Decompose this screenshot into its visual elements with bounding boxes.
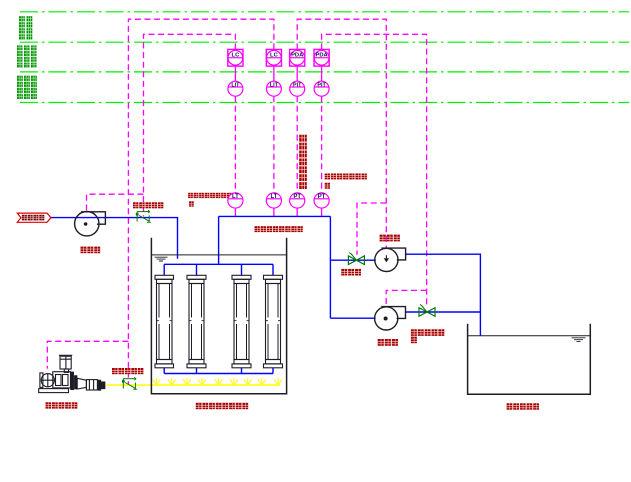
- pipe stub: module 1 bottom: [163, 368, 165, 374]
- signal wire W1: controller LC2 to aeration control valve: [128, 19, 274, 384]
- indicator PIT (circle instrument 3): [290, 81, 305, 96]
- transmitter LT (field instrument 1): [228, 193, 243, 208]
- signal wire W3 branch to lift pump: [87, 194, 144, 211]
- aeration diffuser 1: [153, 378, 161, 385]
- self-priming pump P3: [375, 307, 406, 330]
- aeration diffuser 6: [230, 378, 238, 385]
- membrane module M1: [155, 275, 174, 368]
- wire: indicator to transmitter column 2: [273, 96, 275, 193]
- svg-text:PIT: PIT: [293, 82, 302, 88]
- wire: controller to indicator column 2: [273, 66, 275, 81]
- aeration diffuser 9: [274, 378, 282, 385]
- svg-text:LT: LT: [270, 194, 277, 200]
- membrane module M2: [187, 275, 206, 368]
- signal wire W2: controller PDA1 to backwash pump: [297, 19, 386, 248]
- wire: transmitter tap column 3: [296, 208, 298, 216]
- roots blower unit: [39, 355, 105, 392]
- svg-text:LIT: LIT: [270, 82, 279, 88]
- pipe stub: module 2 bottom: [196, 368, 198, 374]
- pipe: self-priming pump suction: [330, 317, 375, 319]
- wire: indicator to transmitter column 1: [234, 96, 236, 193]
- pipe stub: module 1 top: [163, 264, 165, 275]
- svg-text:PDA: PDA: [291, 53, 304, 59]
- backwash valve (bowtie): [348, 253, 364, 265]
- label: self-priming pump: [378, 339, 398, 346]
- signal wire W4: controller PDA2 to outlet valve: [322, 34, 427, 307]
- membrane tank water line: [151, 254, 286, 256]
- lift pump hub dot: [84, 222, 88, 226]
- label: outlet valve line 1: [411, 329, 444, 336]
- aeration control valve (after blower): [122, 377, 137, 389]
- membrane tank (MBR basin): [151, 238, 286, 394]
- pipe stub: module 3 top: [241, 264, 243, 275]
- signal wire W4 branch to self-priming pump: [386, 290, 426, 306]
- pipe stub: module 4 bottom: [272, 368, 274, 374]
- aeration diffuser 3: [183, 378, 191, 385]
- label: backwash pump: [380, 235, 400, 242]
- clean tank water level symbol: [572, 338, 586, 342]
- wire: transmitter tap column 2: [273, 208, 275, 216]
- wire: controller to indicator column 4: [321, 66, 323, 81]
- label: aeration control valve: [112, 368, 143, 374]
- controller PDA (square instrument 4): [314, 49, 329, 66]
- green zone boundary line 1: [20, 11, 629, 13]
- pipe stub: module 4 top: [272, 264, 274, 275]
- wire: controller to indicator column 3: [296, 66, 298, 81]
- transmitter LT (field instrument 2): [266, 193, 281, 208]
- zone label group 2 (main control room): [17, 45, 37, 67]
- svg-text:LIT: LIT: [231, 82, 240, 88]
- lift pump P1: [75, 212, 106, 236]
- label: permeate header: [255, 226, 303, 232]
- membrane tank water level symbol: [155, 257, 168, 261]
- indicator LIT (circle instrument 2): [266, 81, 281, 96]
- label: tank level transmitter signal line 1: [188, 193, 231, 198]
- aeration diffuser 7: [244, 378, 252, 385]
- wire: indicator to transmitter column 4: [321, 96, 323, 193]
- pipe: backwash pump suction: [330, 259, 375, 261]
- label: pressure sensor signal (vertical): [299, 135, 307, 189]
- label: inlet control valve: [133, 202, 163, 208]
- aeration diffuser 8: [258, 378, 266, 385]
- wire: transmitter tap column 4: [321, 208, 323, 216]
- svg-text:PT: PT: [318, 194, 326, 200]
- signal wire W1 branch to roots blower: [47, 341, 128, 368]
- membrane module M3: [232, 275, 251, 368]
- inlet control valve (after lift pump): [136, 210, 151, 222]
- pipe: air line from roots blower: [106, 384, 280, 386]
- svg-text:PDA: PDA: [315, 53, 328, 59]
- pipe: self-priming pump discharge: [406, 311, 481, 313]
- svg-text:LT: LT: [232, 194, 239, 200]
- label: membrane pressure signal line 2: [325, 183, 330, 189]
- label: tank level transmitter signal line 2: [189, 201, 194, 206]
- transmitter PT (field instrument 4): [314, 193, 329, 208]
- raw water inlet flag text: [22, 215, 45, 221]
- clean water storage tank: [468, 324, 591, 395]
- pipe stub: module 2 top: [196, 264, 198, 275]
- pipe stub: module 3 bottom: [241, 368, 243, 374]
- wire: indicator to transmitter column 3: [296, 96, 298, 193]
- signal wire W3: controller LC1 to inlet control valve: [144, 34, 236, 216]
- label: clean water tank: [507, 403, 539, 409]
- backwash pump hub arrow: [385, 255, 387, 258]
- label: roots blower: [46, 402, 78, 408]
- clean tank water line: [468, 335, 591, 337]
- label: membrane pressure signal line 1: [325, 174, 367, 180]
- label: outlet valve line 2: [411, 337, 417, 344]
- svg-text:LC: LC: [232, 53, 241, 59]
- zone label group 3 (local control panel): [17, 76, 37, 99]
- aeration diffuser 5: [215, 378, 223, 385]
- pipe: raw water inlet to membrane tank: [51, 218, 178, 259]
- svg-text:PIT: PIT: [317, 82, 326, 88]
- green zone boundary line 2: [20, 41, 629, 43]
- signal wire W2 branch to backwash valve: [357, 203, 386, 255]
- pipe: bottom manifold: [164, 373, 273, 375]
- aeration diffuser 4: [198, 378, 206, 385]
- svg-text:PT: PT: [293, 194, 301, 200]
- label: MBR membrane bioreactor: [196, 403, 248, 409]
- green zone boundary line 3: [20, 71, 629, 73]
- svg-text:LC: LC: [270, 53, 279, 59]
- label: lift pump: [81, 247, 101, 254]
- wire: transmitter tap column 1: [234, 208, 236, 216]
- raw water inlet flag: [17, 213, 51, 222]
- indicator LIT (circle instrument 1): [228, 81, 243, 96]
- controller LC (square instrument 2): [266, 49, 281, 66]
- pipe: backwash pump discharge to clean tank: [406, 254, 481, 336]
- indicator PIT (circle instrument 4): [314, 81, 329, 96]
- aeration diffuser 2: [168, 378, 176, 385]
- controller LC (square instrument 1): [228, 49, 243, 66]
- label: backwash valve: [341, 269, 361, 276]
- pipe: permeate header loop: [164, 216, 330, 318]
- controller PDA (square instrument 3): [290, 49, 305, 66]
- transmitter PT (field instrument 3): [290, 193, 305, 208]
- green zone boundary line 4: [20, 102, 629, 104]
- self-priming pump hub dot: [384, 317, 388, 321]
- zone label group 1 (remote control): [19, 16, 32, 39]
- wire: controller to indicator column 1: [234, 66, 236, 81]
- membrane module M4: [264, 275, 283, 368]
- backwash pump P2: [375, 248, 406, 271]
- self-priming pump outlet valve (bowtie): [419, 304, 435, 316]
